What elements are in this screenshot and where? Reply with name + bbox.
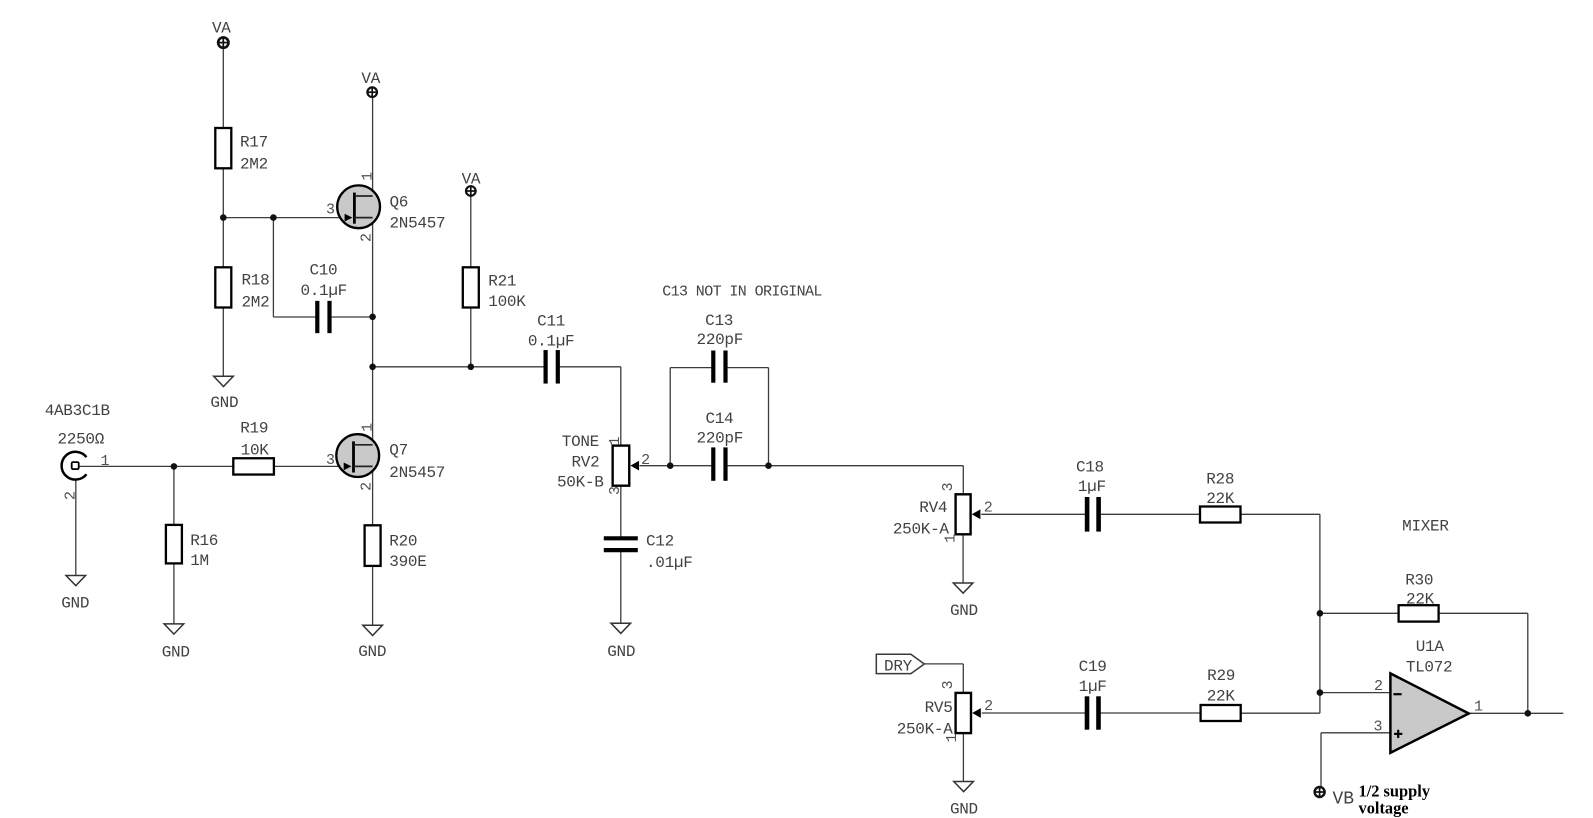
svg-text:GND: GND	[607, 643, 635, 661]
svg-text:100K: 100K	[488, 293, 526, 311]
svg-text:RV4: RV4	[919, 499, 947, 517]
svg-text:1: 1	[100, 453, 109, 470]
svg-text:2: 2	[1374, 678, 1383, 695]
svg-text:RV5: RV5	[925, 699, 953, 717]
svg-text:2: 2	[641, 452, 650, 469]
svg-text:C10: C10	[309, 261, 337, 279]
svg-text:GND: GND	[162, 643, 190, 661]
svg-text:4AB3C1B: 4AB3C1B	[45, 402, 110, 420]
svg-text:VA: VA	[212, 20, 231, 38]
svg-text:TONE: TONE	[562, 433, 599, 451]
svg-text:R20: R20	[389, 532, 417, 550]
svg-text:0.1µF: 0.1µF	[528, 333, 575, 351]
svg-text:Q7: Q7	[389, 442, 408, 460]
svg-text:1: 1	[359, 423, 376, 432]
svg-text:2N5457: 2N5457	[389, 464, 445, 482]
svg-text:C19: C19	[1079, 658, 1107, 676]
svg-text:VA: VA	[462, 171, 481, 189]
svg-text:voltage: voltage	[1359, 799, 1409, 818]
svg-text:220pF: 220pF	[697, 331, 744, 349]
svg-text:.01µF: .01µF	[646, 554, 693, 572]
svg-text:GND: GND	[950, 602, 978, 620]
svg-text:C11: C11	[537, 312, 565, 330]
svg-text:1: 1	[943, 534, 960, 543]
svg-text:2: 2	[359, 233, 376, 242]
svg-text:3: 3	[1373, 719, 1382, 736]
svg-text:2250Ω: 2250Ω	[58, 431, 105, 449]
svg-text:2M2: 2M2	[242, 293, 270, 311]
svg-text:3: 3	[940, 680, 957, 689]
svg-text:1: 1	[359, 172, 376, 181]
svg-text:22K: 22K	[1406, 591, 1435, 609]
svg-text:1: 1	[607, 436, 624, 445]
svg-text:390E: 390E	[389, 553, 426, 571]
svg-text:R17: R17	[240, 134, 268, 152]
svg-text:2: 2	[63, 491, 80, 500]
svg-text:1µF: 1µF	[1078, 478, 1106, 496]
svg-text:R28: R28	[1206, 470, 1234, 488]
svg-text:VB: VB	[1333, 789, 1355, 809]
svg-text:GND: GND	[950, 801, 978, 818]
svg-text:1: 1	[1474, 698, 1483, 715]
svg-text:C13 NOT IN ORIGINAL: C13 NOT IN ORIGINAL	[662, 283, 822, 300]
svg-text:GND: GND	[61, 594, 89, 612]
svg-text:1M: 1M	[190, 552, 209, 570]
svg-text:22K: 22K	[1206, 490, 1235, 508]
svg-text:0.1µF: 0.1µF	[300, 282, 347, 300]
svg-text:R29: R29	[1207, 667, 1235, 685]
svg-text:RV2: RV2	[571, 453, 599, 471]
svg-text:2N5457: 2N5457	[390, 215, 446, 233]
svg-text:3: 3	[326, 452, 335, 469]
svg-text:2: 2	[984, 698, 993, 715]
svg-text:22K: 22K	[1207, 687, 1236, 705]
svg-text:C18: C18	[1076, 458, 1104, 476]
svg-text:C13: C13	[705, 312, 733, 330]
svg-text:R30: R30	[1405, 572, 1433, 590]
svg-text:3: 3	[326, 202, 335, 219]
svg-text:C12: C12	[646, 533, 674, 551]
svg-text:TL072: TL072	[1406, 659, 1453, 677]
svg-text:3: 3	[607, 486, 624, 495]
svg-text:10K: 10K	[241, 441, 270, 459]
svg-text:220pF: 220pF	[697, 430, 744, 448]
svg-text:C14: C14	[705, 410, 733, 428]
svg-text:R16: R16	[190, 532, 218, 550]
svg-text:GND: GND	[210, 394, 238, 412]
svg-text:250K-A: 250K-A	[893, 520, 950, 538]
svg-text:R18: R18	[242, 272, 270, 290]
svg-text:DRY: DRY	[884, 657, 913, 675]
svg-text:GND: GND	[358, 643, 386, 661]
svg-text:Q6: Q6	[390, 194, 409, 212]
svg-text:2: 2	[359, 482, 376, 491]
svg-text:3: 3	[940, 482, 957, 491]
svg-text:2: 2	[984, 500, 993, 517]
svg-text:1µF: 1µF	[1079, 678, 1107, 696]
svg-text:1: 1	[944, 733, 961, 742]
svg-text:U1A: U1A	[1416, 638, 1445, 656]
svg-text:R21: R21	[488, 273, 516, 291]
svg-text:MIXER: MIXER	[1402, 517, 1449, 535]
svg-text:2M2: 2M2	[240, 156, 268, 174]
svg-text:R19: R19	[240, 419, 268, 437]
svg-text:50K-B: 50K-B	[557, 474, 604, 492]
svg-text:VA: VA	[361, 70, 380, 88]
